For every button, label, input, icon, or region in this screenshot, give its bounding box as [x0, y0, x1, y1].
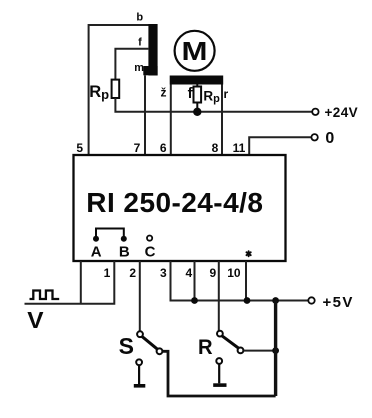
junction dot Rp/+24V	[193, 108, 201, 116]
resistor Rp (motor)	[194, 85, 202, 113]
svg-text:A: A	[91, 243, 102, 260]
svg-text:6: 6	[160, 141, 167, 155]
svg-text:11: 11	[233, 141, 246, 155]
wire pin 9 to switch R	[218, 261, 220, 331]
svg-text:4: 4	[186, 266, 193, 280]
svg-text:5: 5	[76, 141, 83, 155]
svg-text:0: 0	[325, 130, 334, 147]
svg-text:M: M	[182, 37, 208, 66]
contact C	[147, 236, 152, 241]
wire S output to bottom rail	[163, 351, 276, 396]
switch S	[136, 331, 162, 365]
svg-text:V: V	[27, 307, 44, 333]
wire f: brush f to resistor Rp	[115, 49, 148, 80]
svg-text:f: f	[138, 37, 142, 49]
wire pin 10	[245, 261, 247, 301]
svg-text:9: 9	[210, 266, 217, 280]
svg-text:r: r	[223, 87, 228, 101]
svg-text:b: b	[136, 12, 143, 24]
svg-text:C: C	[145, 243, 156, 260]
wire pin 8	[221, 85, 223, 156]
motor brush bar	[170, 76, 224, 85]
terminal +24V	[312, 105, 358, 120]
svg-text:1: 1	[104, 266, 111, 280]
terminal +5V	[308, 294, 354, 311]
junction dot R output	[272, 347, 279, 354]
jumper A-B	[93, 229, 127, 242]
ground (S branch)	[134, 366, 146, 388]
svg-text:R: R	[198, 335, 213, 359]
square wave symbol	[30, 291, 60, 300]
wire pin 3 to +5V rail	[171, 261, 309, 301]
wire m / pin 7	[144, 75, 146, 155]
wire R output	[244, 350, 276, 352]
wire b: brush b terminal to pin 5	[89, 25, 149, 155]
junction dot +5V/right branch	[272, 297, 279, 304]
box RI 250-24-4/8	[74, 155, 286, 261]
resistor Rp (left)	[112, 80, 120, 98]
svg-text:10: 10	[227, 266, 241, 280]
svg-text:7: 7	[134, 141, 141, 155]
ground (R branch)	[213, 364, 226, 387]
wire V to pin 1	[25, 261, 115, 304]
wire +24V rail	[115, 98, 312, 112]
svg-text:B: B	[119, 243, 130, 260]
wire pin 2 to switch S	[139, 261, 141, 331]
wire pin 6	[170, 85, 172, 156]
wire 0 / pin 11	[249, 137, 311, 155]
svg-text:f: f	[188, 86, 193, 102]
junction dot pin10	[244, 297, 251, 304]
stub box to V wire	[80, 261, 82, 304]
right branch vertical wire	[274, 301, 277, 397]
switch R	[216, 331, 243, 364]
svg-text:3: 3	[160, 266, 167, 280]
terminal 0	[311, 130, 334, 147]
svg-text:S: S	[119, 333, 134, 359]
svg-text:2: 2	[129, 266, 136, 280]
svg-text:8: 8	[212, 141, 219, 155]
svg-text:ž: ž	[161, 86, 167, 100]
svg-text:RI 250-24-4/8: RI 250-24-4/8	[86, 187, 263, 218]
motor M	[175, 31, 215, 71]
asterisk	[247, 251, 251, 256]
svg-text:m: m	[134, 62, 144, 74]
wire pin 4	[194, 261, 196, 301]
svg-text:+24V: +24V	[325, 105, 359, 120]
svg-text:+5V: +5V	[323, 294, 354, 311]
junction dot pin4	[191, 297, 198, 304]
brush bar b-f-m	[143, 24, 157, 76]
